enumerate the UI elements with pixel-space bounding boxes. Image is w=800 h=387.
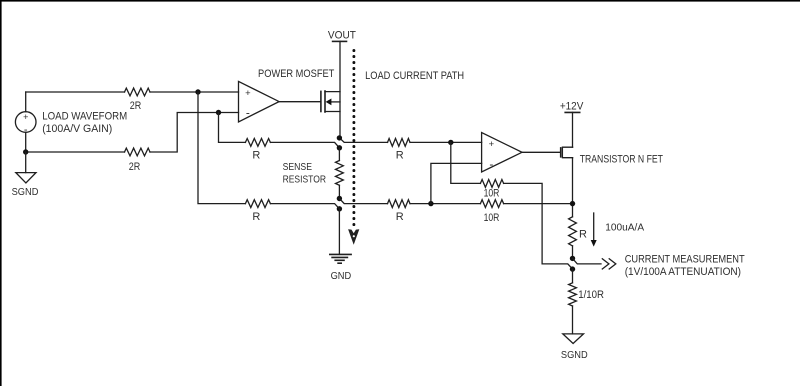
label CURRENT MEASUREMENT (1V/100A ATTENUATION) bbox=[625, 253, 745, 278]
node measurement a bbox=[570, 256, 575, 261]
wire measurement node down to 1/10R bbox=[572, 269, 574, 283]
svg-text:1/10R: 1/10R bbox=[578, 289, 604, 301]
wire measurement tap out (kelvin) bbox=[573, 258, 602, 264]
svg-text:+12V: +12V bbox=[560, 101, 584, 113]
svg-text:100uA/A: 100uA/A bbox=[605, 223, 644, 234]
resistor R (output, vertical) bbox=[569, 217, 577, 246]
node sense bottom b bbox=[337, 206, 342, 211]
svg-text:GND: GND bbox=[331, 270, 352, 282]
svg-text:(1V/100A ATTENUATION): (1V/100A ATTENUATION) bbox=[625, 266, 741, 278]
wire 1/10R to SGND bbox=[572, 306, 574, 334]
ground SGND (right) bbox=[563, 334, 584, 344]
svg-text:TRANSISTOR N FET: TRANSISTOR N FET bbox=[580, 154, 664, 166]
wire source down to R node bbox=[572, 158, 574, 217]
load current path (dotted) bbox=[348, 51, 359, 245]
wire right top R to op-amp U2 + input bbox=[410, 141, 482, 143]
svg-text:-: - bbox=[489, 157, 493, 171]
wire 2R to op-amp + input bbox=[150, 91, 239, 93]
resistor 10R (lower) bbox=[480, 200, 503, 208]
wire upper R to sense top (kelvin) bbox=[270, 142, 339, 147]
wire sense bottom to right lower R (kelvin) bbox=[339, 199, 387, 204]
node + input junction bbox=[448, 140, 453, 145]
svg-text:SGND: SGND bbox=[561, 349, 588, 361]
ground GND (power) bbox=[330, 254, 351, 263]
frame left border bbox=[0, 0, 2, 386]
wire sense top to right R (kelvin) bbox=[339, 138, 387, 143]
resistor SENSE bbox=[336, 148, 344, 199]
svg-text:R: R bbox=[252, 211, 260, 223]
wire op-amp U1 output to gate bbox=[279, 101, 320, 103]
label LOAD WAVEFORM (100A/V GAIN) bbox=[42, 111, 127, 135]
op-amp U1 bbox=[239, 81, 280, 122]
svg-text:R: R bbox=[579, 229, 587, 241]
resistor R (right top) bbox=[388, 139, 411, 147]
wire 10R upper right then down to measurement kelvin bbox=[504, 183, 573, 269]
node sense bottom a bbox=[337, 196, 342, 201]
svg-text:POWER MOSFET: POWER MOSFET bbox=[258, 68, 335, 80]
frame top border bbox=[0, 0, 800, 2]
svg-text:R: R bbox=[252, 150, 260, 162]
arrow chevron output bbox=[602, 259, 616, 269]
resistor 2R (top) bbox=[125, 88, 151, 96]
node transistor source junction bbox=[570, 201, 575, 206]
terminal +12V bbox=[560, 101, 584, 113]
ground SGND (left) bbox=[16, 152, 36, 183]
svg-text:-: - bbox=[246, 106, 250, 120]
svg-text:10R: 10R bbox=[484, 188, 500, 200]
wire drain to +12V bbox=[572, 112, 574, 147]
resistor R (lower middle) bbox=[245, 200, 270, 208]
wire - net up to op-amp U2 - input bbox=[431, 163, 482, 203]
op-amp U2 bbox=[482, 133, 522, 173]
svg-text:RESISTOR: RESISTOR bbox=[283, 174, 326, 185]
resistor R (upper middle) bbox=[245, 139, 270, 147]
svg-text:2R: 2R bbox=[130, 100, 142, 112]
wire VOUT to drain and source down to sense node bbox=[339, 41, 341, 137]
current direction arrow 100uA/A bbox=[591, 213, 597, 247]
terminal VOUT bbox=[328, 29, 356, 41]
node junction on - input wire bbox=[216, 110, 221, 115]
node junction top wire bbox=[195, 89, 200, 94]
wire from - input node down to upper R bbox=[219, 113, 246, 143]
wire source bottom lead bbox=[25, 132, 27, 152]
resistor 1/10R bbox=[569, 283, 577, 306]
wire lower R to sense bottom (kelvin) bbox=[270, 204, 339, 209]
svg-text:R: R bbox=[396, 149, 404, 161]
wire 2R bottom up to op-amp - input bbox=[150, 113, 239, 153]
svg-text:(100A/V GAIN): (100A/V GAIN) bbox=[42, 123, 112, 135]
wire 10R lower to transistor source node bbox=[504, 203, 573, 205]
svg-text:10R: 10R bbox=[484, 212, 500, 224]
svg-text:SENSE: SENSE bbox=[283, 162, 312, 173]
node junction bottom of source bbox=[23, 149, 28, 154]
svg-text:2R: 2R bbox=[129, 161, 141, 173]
svg-text:LOAD CURRENT PATH: LOAD CURRENT PATH bbox=[365, 70, 464, 82]
node sense top b bbox=[337, 145, 342, 150]
node - net junction bbox=[428, 201, 433, 206]
svg-text:CURRENT MEASUREMENT: CURRENT MEASUREMENT bbox=[625, 253, 745, 265]
node sense top a bbox=[337, 135, 342, 140]
wire top net to 2R bbox=[26, 91, 125, 93]
svg-text:SGND: SGND bbox=[12, 186, 39, 198]
svg-text:+: + bbox=[489, 139, 495, 150]
wire bottom net to 2R bbox=[26, 151, 125, 153]
svg-text:VOUT: VOUT bbox=[328, 29, 356, 41]
transistor Q2 N FET bbox=[561, 147, 573, 158]
wire right bottom R to 10R bbox=[410, 203, 480, 205]
svg-text:+: + bbox=[23, 112, 28, 122]
resistor 10R (upper) bbox=[480, 180, 503, 188]
transistor Q1 power MOSFET bbox=[321, 91, 340, 112]
wire sense bottom to GND bbox=[338, 209, 340, 255]
node measurement b bbox=[570, 266, 575, 271]
wire source top lead bbox=[25, 92, 27, 112]
svg-text:LOAD WAVEFORM: LOAD WAVEFORM bbox=[42, 111, 127, 123]
wire + node down to 10R feedback bbox=[451, 142, 481, 183]
source V1 (load waveform) bbox=[15, 112, 36, 136]
svg-text:+: + bbox=[245, 88, 251, 99]
label SENSE RESISTOR bbox=[283, 162, 326, 185]
resistor R (right bottom) bbox=[388, 200, 411, 208]
resistor 2R (bottom) bbox=[125, 148, 151, 156]
wire op-amp U2 output to transistor gate bbox=[522, 151, 560, 153]
svg-text:R: R bbox=[396, 211, 404, 223]
wire R to measurement node bbox=[572, 246, 574, 259]
wire left bottom net vertical from top node bbox=[198, 92, 245, 204]
